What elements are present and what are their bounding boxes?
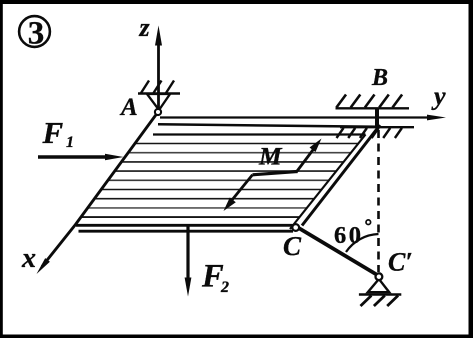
- svg-text:C′: C′: [388, 248, 413, 277]
- svg-text:M: M: [258, 142, 283, 171]
- svg-text:A: A: [119, 94, 138, 121]
- svg-text:1: 1: [66, 134, 74, 151]
- svg-text:y: y: [431, 82, 446, 111]
- svg-text:60: 60: [334, 222, 364, 249]
- svg-text:3: 3: [28, 16, 45, 52]
- svg-text:x: x: [21, 243, 36, 274]
- svg-text:B: B: [371, 65, 388, 91]
- svg-text:2: 2: [220, 279, 229, 296]
- svg-text:C: C: [283, 231, 302, 261]
- svg-text:F: F: [42, 115, 64, 150]
- svg-text:z: z: [139, 13, 151, 42]
